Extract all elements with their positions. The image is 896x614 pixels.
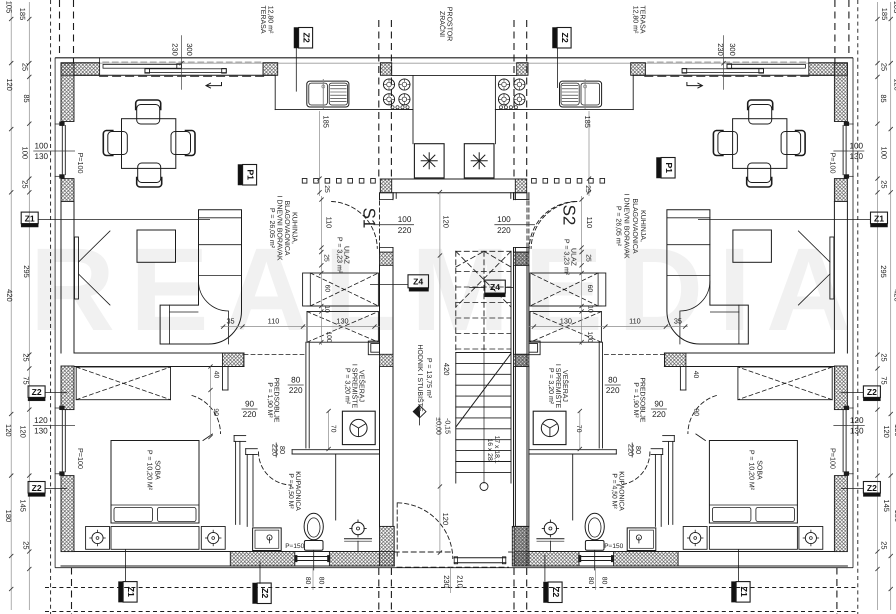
- dim line rear door 210-230: [450, 568, 452, 593]
- fraction 100/130 right: [833, 142, 864, 161]
- window W1 sliding 300x230 top wall: [100, 62, 265, 76]
- svg-text:KUPAONICA: KUPAONICA: [618, 471, 625, 511]
- svg-text:180: 180: [4, 510, 13, 523]
- corridor wall dash below right2: [526, 568, 528, 614]
- label box Z1 bottom-right: [732, 582, 751, 603]
- svg-text:110: 110: [268, 317, 280, 326]
- wall projection dash right outer: [848, 0, 850, 58]
- svg-text:Z2: Z2: [551, 587, 561, 597]
- svg-text:80: 80: [318, 577, 325, 585]
- stair right edge: [510, 251, 512, 352]
- svg-text:P=150: P=150: [604, 543, 623, 550]
- stair break line: [456, 354, 511, 428]
- svg-text:220: 220: [270, 444, 279, 456]
- terrace door swing arrow: [206, 83, 222, 89]
- svg-text:100: 100: [497, 215, 511, 224]
- svg-text:220: 220: [497, 226, 511, 235]
- svg-text:185: 185: [583, 115, 592, 128]
- svg-text:12,80 m²: 12,80 m²: [267, 6, 274, 34]
- svg-text:TERASA: TERASA: [639, 5, 646, 33]
- stair top edge dashed: [456, 250, 511, 252]
- wall projection dash left inner: [73, 0, 75, 63]
- stair tread: [456, 352, 511, 354]
- toilet leader to wall: [313, 550, 315, 570]
- label P1 left: [238, 165, 257, 186]
- svg-text:100: 100: [21, 147, 30, 160]
- wall projection dash left bottom: [71, 568, 73, 614]
- door sill line 1: [454, 557, 506, 559]
- door swing indicator line 1: [79, 231, 111, 262]
- svg-text:25: 25: [880, 541, 889, 549]
- svg-text:100: 100: [880, 147, 889, 160]
- svg-text:130: 130: [34, 152, 48, 161]
- kitchen sink: [307, 80, 349, 109]
- svg-text:ULAZ: ULAZ: [343, 246, 350, 265]
- svg-text:120: 120: [850, 416, 864, 425]
- svg-text:220: 220: [606, 386, 620, 395]
- svg-text:P = 26,05 m²: P = 26,05 m²: [268, 208, 275, 249]
- svg-text:60: 60: [586, 285, 593, 293]
- fraction 120/130 left: [33, 416, 75, 435]
- label Z4 left with leader: [370, 275, 429, 291]
- corridor east wall: [512, 193, 527, 566]
- svg-text:P=100: P=100: [76, 448, 85, 469]
- svg-text:P = 3,20 m²: P = 3,20 m²: [344, 368, 351, 405]
- dim line kitchen window 185 right: [587, 111, 591, 196]
- svg-text:P = 4,50 M²: P = 4,50 M²: [611, 473, 618, 509]
- stair left edge dashed: [455, 251, 457, 352]
- label P1 right: [657, 158, 676, 179]
- svg-text:KUPAONICA: KUPAONICA: [294, 471, 301, 511]
- dim line S2 door 110: [580, 196, 584, 250]
- svg-text:110: 110: [629, 317, 641, 326]
- label Z2 right edge 1 with leader: [841, 386, 880, 401]
- svg-text:145: 145: [19, 499, 28, 512]
- label box Z1 right edge: [871, 212, 888, 227]
- fraction 80/220 laundry right: [605, 376, 621, 395]
- svg-text:85: 85: [22, 94, 31, 102]
- svg-text:S1: S1: [360, 208, 379, 229]
- svg-text:Z2: Z2: [32, 387, 42, 397]
- window W3 left wall 120x130: [55, 406, 65, 475]
- svg-text:ULAZ: ULAZ: [570, 248, 577, 267]
- svg-text:P=100: P=100: [76, 153, 85, 174]
- svg-text:PROSTOR: PROSTOR: [446, 7, 453, 42]
- svg-text:90: 90: [654, 400, 664, 409]
- fraction 100/220 S2: [494, 215, 535, 235]
- svg-text:I SPREMIŠTE: I SPREMIŠTE: [351, 364, 360, 409]
- svg-text:120: 120: [893, 78, 896, 91]
- eave dotted line bottom: [45, 587, 858, 589]
- dotted square projection row right: [532, 179, 605, 184]
- left wall hatch segment 2: [61, 366, 74, 410]
- svg-text:Z2: Z2: [867, 483, 877, 493]
- svg-text:90: 90: [212, 408, 219, 416]
- top wall hatch pier center: [380, 63, 391, 76]
- svg-text:I DNEVNI BORAVAK: I DNEVNI BORAVAK: [623, 193, 630, 258]
- bathroom top wall: [292, 450, 379, 454]
- stair center rail line: [483, 353, 485, 484]
- bottom wall outer face: [61, 565, 394, 567]
- svg-text:110: 110: [585, 217, 594, 229]
- svg-text:25: 25: [880, 180, 889, 188]
- stair centerline dashed upper: [483, 251, 485, 352]
- svg-text:TERASA: TERASA: [259, 5, 266, 33]
- svg-text:220: 220: [289, 386, 303, 395]
- air-space dashed line S1 inner: [390, 20, 392, 179]
- svg-text:80: 80: [291, 376, 301, 385]
- label box Z2 left edge 1: [28, 386, 45, 401]
- fraction 90/220 left: [242, 400, 258, 419]
- headboard: [111, 527, 199, 550]
- svg-text:17 x 18,1: 17 x 18,1: [493, 436, 500, 464]
- label box Z2 left edge 2: [28, 482, 45, 497]
- svg-text:220: 220: [243, 410, 257, 419]
- fraction 80/220 laundry left: [288, 376, 304, 395]
- svg-text:REALMEDIA: REALMEDIA: [30, 224, 866, 356]
- air-space dashed line S2 inner: [513, 20, 515, 179]
- bathroom west wall: [246, 449, 258, 527]
- svg-text:420: 420: [893, 289, 896, 302]
- svg-text:P = 26,05 m²: P = 26,05 m²: [614, 206, 621, 247]
- svg-text:75: 75: [880, 376, 889, 384]
- svg-text:25: 25: [584, 185, 591, 193]
- svg-text:85: 85: [879, 94, 888, 102]
- svg-text:P=150: P=150: [285, 543, 304, 550]
- svg-text:120: 120: [34, 416, 48, 425]
- corridor wall dash below right: [513, 568, 515, 614]
- label Z2 bottom-left with leader: [253, 561, 272, 604]
- svg-text:25: 25: [880, 353, 889, 361]
- svg-text:25: 25: [21, 63, 30, 71]
- svg-text:80: 80: [608, 376, 618, 385]
- svg-text:295: 295: [22, 265, 31, 278]
- svg-text:HODNIK I STUBIŠTE: HODNIK I STUBIŠTE: [416, 344, 425, 412]
- svg-text:SOBA: SOBA: [755, 460, 762, 480]
- svg-text:185: 185: [322, 115, 331, 128]
- rear exit door center: [394, 503, 511, 567]
- stair dashed diagonal 1: [456, 251, 511, 307]
- stair dashed apex line 1: [456, 251, 484, 267]
- svg-text:Z2: Z2: [560, 33, 570, 43]
- svg-text:100: 100: [398, 215, 412, 224]
- svg-text:105: 105: [892, 1, 896, 14]
- svg-text:75: 75: [22, 376, 31, 384]
- laundry wardrobe with X: [76, 367, 170, 400]
- svg-text:295: 295: [879, 265, 888, 278]
- label box Z2 bottom-right: [544, 582, 563, 603]
- label box Z1 bottom-left: [119, 582, 138, 603]
- svg-text:Z1: Z1: [874, 213, 884, 223]
- bathroom partition line: [335, 454, 337, 520]
- dim line top window 300-230 left: [179, 35, 183, 90]
- door sill line 2: [454, 562, 506, 564]
- dim row 35-110-130 right: [529, 325, 688, 329]
- door S2 entry 100x220: [527, 201, 575, 248]
- label Z1 left edge with leader: [21, 212, 210, 227]
- double bed: [111, 441, 199, 550]
- left cladding line: [54, 58, 56, 568]
- top wall inner face: [74, 74, 275, 76]
- svg-text:P1: P1: [664, 162, 674, 173]
- bottom wall inner face: [74, 551, 394, 553]
- svg-text:120: 120: [19, 425, 28, 438]
- svg-text:25: 25: [584, 254, 591, 262]
- svg-text:220: 220: [626, 444, 635, 456]
- svg-text:420: 420: [5, 289, 14, 302]
- stair left edge solid: [455, 353, 457, 484]
- right cladding line: [852, 58, 854, 568]
- svg-text:220: 220: [398, 226, 412, 235]
- svg-text:Z2: Z2: [301, 33, 311, 43]
- svg-text:185: 185: [18, 8, 27, 21]
- toilet WC: [304, 513, 323, 570]
- svg-text:100: 100: [586, 331, 593, 343]
- dim line closets right: [580, 250, 584, 345]
- svg-text:12,80 m²: 12,80 m²: [632, 6, 639, 34]
- bottom wall hatch right of bath window: [329, 552, 394, 567]
- laundry top wall: [74, 353, 307, 367]
- svg-text:10: 10: [323, 305, 330, 313]
- label Z2 left edge 1 with leader: [28, 386, 67, 401]
- dim line top window 300-230 right: [721, 35, 725, 90]
- label box Z2 top-right: [553, 28, 572, 49]
- corridor west wall: [380, 193, 395, 566]
- svg-text:25: 25: [21, 180, 30, 188]
- rear opening dashed outer line: [397, 566, 509, 568]
- fraction 80/220 bedroom-door right rotated: [626, 443, 643, 458]
- svg-text:25: 25: [880, 63, 889, 71]
- svg-text:80: 80: [304, 577, 311, 585]
- dim line bottom window 80 right: [594, 568, 596, 590]
- svg-text:90: 90: [693, 408, 700, 416]
- svg-text:120: 120: [442, 215, 451, 228]
- stair newel circle: [480, 483, 488, 491]
- door 90 predsoblje dashed swing: [192, 396, 221, 441]
- svg-text:P = 3,23 m²: P = 3,23 m²: [563, 239, 570, 276]
- svg-text:110: 110: [325, 217, 334, 229]
- terrace eave dotted line left: [50, 0, 52, 614]
- svg-text:25: 25: [22, 353, 31, 361]
- svg-text:Z1: Z1: [126, 587, 136, 597]
- svg-text:210: 210: [456, 575, 465, 588]
- svg-text:P = 1,90 M²: P = 1,90 M²: [632, 382, 639, 418]
- bottom wall hatch left of bath window: [230, 552, 294, 567]
- svg-text:SOBA: SOBA: [154, 460, 161, 480]
- svg-text:±0,00: ±0,00: [435, 417, 442, 435]
- entry wardrobe 1 with X: [303, 273, 379, 306]
- svg-text:P = 3,20 m²: P = 3,20 m²: [547, 368, 554, 405]
- svg-text:100: 100: [849, 142, 863, 151]
- label Z2 bottom-right with leader: [544, 555, 563, 603]
- top wall hatch corner NW: [61, 63, 100, 76]
- svg-text:BLAGOVAONICA: BLAGOVAONICA: [283, 200, 290, 255]
- corridor wall dash below left2: [390, 568, 392, 614]
- nightstand left with lamp: [86, 527, 110, 550]
- svg-text:90: 90: [245, 400, 255, 409]
- dimension chain right edge outer: [889, 2, 893, 610]
- svg-text:130: 130: [560, 317, 572, 326]
- label Z1 bottom-right with leader: [732, 549, 751, 602]
- svg-text:KUHINJA,: KUHINJA,: [639, 210, 646, 242]
- plot dotted line bottom edge: [45, 611, 858, 613]
- dining chair south: [137, 163, 162, 187]
- bedroom east wall: [234, 436, 246, 525]
- kitchen stove 4 burners: [380, 79, 413, 110]
- air-space dashed line S2 outer: [526, 20, 528, 179]
- svg-text:70: 70: [575, 425, 582, 433]
- dim line 40-90 left: [208, 364, 212, 439]
- entry wardrobe 2 with X: [307, 306, 378, 342]
- left wall hatch segment 3: [61, 476, 74, 552]
- svg-text:230: 230: [716, 43, 725, 56]
- dining table: [122, 119, 176, 169]
- label box Z1 left edge: [21, 212, 38, 227]
- corner sofa L-shaped: [160, 210, 241, 344]
- svg-text:Z1: Z1: [25, 213, 35, 223]
- svg-text:KUHINJA,: KUHINJA,: [291, 212, 298, 244]
- dining chair west: [103, 131, 127, 156]
- top glazing grey line: [61, 62, 847, 64]
- svg-text:P=100: P=100: [828, 448, 837, 469]
- svg-text:120: 120: [4, 424, 13, 437]
- svg-text:120: 120: [882, 425, 891, 438]
- svg-text:I SPREMIŠTE: I SPREMIŠTE: [554, 364, 563, 409]
- predsoblje west wall: [306, 342, 309, 448]
- svg-text:Z2: Z2: [260, 588, 270, 598]
- sliding door panel: [75, 237, 79, 299]
- dim line kitchen window 185 left: [317, 111, 321, 196]
- svg-text:300: 300: [728, 43, 737, 56]
- svg-text:420: 420: [442, 363, 451, 376]
- svg-text:120: 120: [5, 78, 14, 91]
- dim line bottom window 80 left: [312, 568, 314, 590]
- svg-text:220: 220: [652, 410, 666, 419]
- svg-text:S2: S2: [559, 205, 578, 226]
- fraction 120/130 right: [833, 416, 864, 435]
- door swing indicator line 2: [79, 274, 111, 305]
- label Z1 bottom-left with leader: [119, 549, 138, 602]
- dim line S1 door 110: [319, 196, 323, 250]
- stair dashed tread: [456, 271, 511, 273]
- label Z4 center with leader: [469, 280, 513, 297]
- svg-text:80: 80: [600, 577, 607, 585]
- central corridor and stair block: [302, 75, 604, 567]
- svg-text:Z4: Z4: [413, 277, 423, 287]
- left wall hatch pier between windows: [61, 179, 74, 202]
- svg-text:P=100: P=100: [828, 153, 837, 174]
- label Z1 right edge with leader: [698, 212, 888, 227]
- svg-text:25: 25: [22, 541, 31, 549]
- svg-text:130: 130: [34, 427, 48, 436]
- svg-text:130: 130: [336, 317, 348, 326]
- dining chair east: [171, 131, 195, 156]
- shower tray: [253, 528, 282, 551]
- stair dashed diagonal 2: [456, 251, 511, 307]
- wash basin: [345, 520, 372, 552]
- svg-text:Z4: Z4: [490, 282, 500, 292]
- coffee table: [137, 230, 176, 262]
- label box Z2 right edge 2: [863, 482, 880, 497]
- dim line 70 washer left: [327, 409, 331, 451]
- svg-text:120: 120: [441, 513, 450, 526]
- void inner top line: [392, 74, 517, 76]
- air-space dashed line S1 outer: [378, 20, 380, 179]
- svg-text:I DNEVNI BORAVAK: I DNEVNI BORAVAK: [275, 195, 282, 260]
- corridor top wall: [380, 75, 526, 198]
- svg-text:40: 40: [692, 371, 699, 379]
- washing machine: [342, 411, 375, 444]
- svg-text:130: 130: [849, 152, 863, 161]
- svg-text:185: 185: [880, 8, 889, 21]
- laundry-predsoblje stub wall: [223, 367, 229, 391]
- label Z2 left edge 2 with leader: [28, 482, 67, 497]
- svg-text:BLAGOVAONICA: BLAGOVAONICA: [631, 198, 638, 253]
- svg-text:230: 230: [171, 43, 180, 56]
- terrace sliding door left wall 295: [61, 202, 110, 354]
- svg-text:Z2: Z2: [32, 483, 42, 493]
- window W4 bathroom 80 bottom wall: [295, 556, 330, 562]
- dining chair north: [136, 100, 161, 124]
- dim row 35-110-130 left: [221, 325, 380, 329]
- label box Z2 top-left: [294, 28, 313, 49]
- svg-text:-0,15: -0,15: [444, 418, 451, 434]
- label box P1 right: [657, 158, 676, 179]
- svg-text:P = 10,20 M²: P = 10,20 M²: [146, 450, 153, 491]
- svg-text:P = 10,20 M²: P = 10,20 M²: [747, 450, 754, 491]
- wall projection dash left outer: [59, 0, 61, 58]
- svg-text:105: 105: [5, 1, 14, 14]
- svg-text:230: 230: [442, 575, 451, 588]
- svg-text:P = 1,90 M²: P = 1,90 M²: [266, 382, 273, 418]
- svg-text:VEŠERAJ: VEŠERAJ: [358, 370, 367, 402]
- dotted square projection row left: [302, 179, 375, 184]
- svg-text:16 x 28: 16 x 28: [486, 438, 493, 461]
- svg-text:25: 25: [322, 254, 329, 262]
- svg-text:40: 40: [213, 371, 220, 379]
- nightstand right with lamp: [201, 527, 225, 550]
- wall projection dash right inner: [834, 0, 836, 63]
- left wall hatch segment 1: [61, 63, 74, 122]
- svg-text:P = 13,75 m²: P = 13,75 m²: [425, 358, 432, 399]
- dimension chain right edge inner: [875, 2, 879, 610]
- fraction 90/220 right: [651, 400, 667, 419]
- vesheraj door jamb niche: [368, 341, 379, 355]
- terrace eave dotted line right: [857, 0, 859, 614]
- mirrored right unit geometry: [464, 58, 853, 570]
- svg-text:35: 35: [226, 317, 234, 326]
- svg-text:P = 3,23 m²: P = 3,23 m²: [336, 237, 343, 274]
- svg-text:70: 70: [330, 425, 337, 433]
- level marker +-0.00: [413, 405, 426, 425]
- top facade outer line: [55, 57, 853, 59]
- svg-text:35: 35: [674, 317, 682, 326]
- door 80 bathroom dashed swing: [259, 452, 292, 485]
- svg-text:145: 145: [882, 499, 891, 512]
- fraction 100/220 S1: [374, 215, 415, 235]
- svg-text:60: 60: [323, 285, 330, 293]
- svg-text:130: 130: [850, 427, 864, 436]
- door S1 entry 100x220: [332, 201, 380, 248]
- svg-text:Z1: Z1: [739, 587, 749, 597]
- svg-text:VEŠERAJ: VEŠERAJ: [561, 370, 570, 402]
- refrigerator with star symbol: [414, 144, 444, 178]
- label box P1 left: [238, 165, 257, 186]
- dimension chain left edge inner: [27, 2, 31, 610]
- svg-text:P1: P1: [245, 169, 255, 180]
- dimension chain left edge outer: [9, 2, 13, 610]
- stair dashed apex line 2: [484, 251, 511, 267]
